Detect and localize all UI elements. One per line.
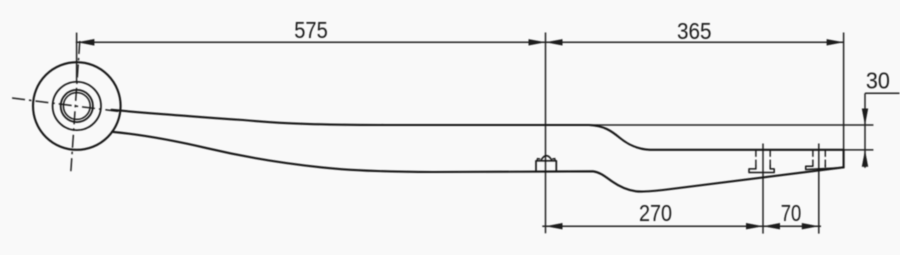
svg-text:365: 365 (677, 18, 712, 44)
svg-text:575: 575 (294, 17, 328, 43)
svg-text:30: 30 (866, 68, 890, 94)
svg-text:270: 270 (639, 200, 672, 226)
svg-text:70: 70 (781, 200, 802, 226)
